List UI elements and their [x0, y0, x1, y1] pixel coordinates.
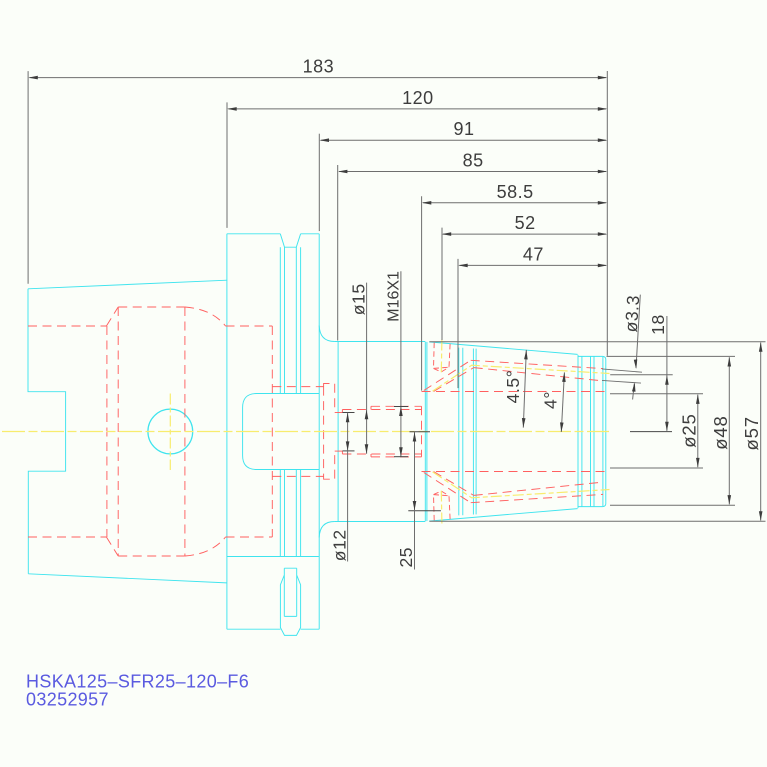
center hole circle — [148, 409, 193, 454]
nose tip groove — [591, 356, 595, 506]
flange bottom edge left — [227, 628, 281, 630]
cone top line — [429, 342, 577, 355]
ext lines dia57 — [430, 342, 766, 522]
radial hole centerline top — [440, 340, 443, 373]
svg-text:183: 183 — [303, 57, 335, 77]
svg-text:4°: 4° — [541, 391, 561, 409]
center hole vertical centerline — [169, 394, 171, 471]
bore 12 step face — [341, 410, 343, 455]
cavity shelf top right — [226, 325, 273, 327]
ext line 18 — [610, 374, 673, 376]
cone ring lines 1 — [459, 348, 463, 516]
nose tip step — [578, 355, 582, 508]
order number text — [26, 690, 109, 710]
ticks dia12 — [342, 413, 354, 451]
coolant channel walls top — [471, 360, 603, 381]
dimension 120 — [227, 88, 607, 228]
dimension 18 — [648, 314, 669, 431]
nose end face — [603, 356, 606, 506]
flange inner edge bottom — [227, 556, 319, 558]
ext lines dia25 — [610, 394, 703, 468]
body bottom edge — [335, 521, 425, 523]
coolant channel walls bottom — [471, 482, 603, 503]
flange top edge right — [301, 233, 320, 235]
cavity wall b — [117, 307, 119, 556]
thread M16 end face — [421, 406, 423, 457]
svg-text:120: 120 — [402, 88, 434, 108]
flange bottom edge right — [301, 628, 320, 630]
coolant channel centerline top — [433, 365, 610, 391]
bore 15 lines — [342, 410, 421, 455]
coolant entry cone bottom — [424, 472, 474, 503]
nose tip top edge — [578, 355, 603, 357]
coolant channel centerline bottom — [433, 472, 610, 498]
retainer ring — [324, 384, 335, 480]
svg-text:ø3.3: ø3.3 — [621, 294, 644, 333]
dimension 4deg — [541, 372, 566, 432]
svg-text:47: 47 — [523, 244, 544, 264]
svg-text:ø15: ø15 — [348, 283, 368, 315]
dimension dia25 — [678, 394, 699, 467]
shank taper top line — [28, 280, 227, 289]
svg-text:HSKA125–SFR25–120–F6: HSKA125–SFR25–120–F6 — [26, 672, 249, 692]
V-groove projection lines upper — [280, 247, 300, 393]
thread M16 major lines — [371, 406, 422, 457]
coolant tube capsule — [243, 394, 320, 470]
dimension M16X1 — [385, 271, 402, 457]
cavity bottom line — [118, 555, 185, 557]
dimension 183 — [28, 57, 607, 284]
nose fillet bottom — [319, 522, 334, 538]
dimension 25 — [396, 432, 416, 570]
cone start step lines — [425, 342, 427, 522]
dimension 91 — [319, 119, 607, 231]
cavity chamfer top — [106, 307, 118, 326]
thread M16 start steps — [370, 406, 372, 457]
cavity shelf bottom right — [226, 536, 273, 538]
nose fillet top — [319, 326, 334, 342]
channel wall extensions — [602, 369, 642, 383]
tool bore top — [422, 391, 606, 393]
svg-text:18: 18 — [648, 314, 668, 335]
shank taper bottom line — [28, 574, 226, 583]
dimension 85 — [338, 151, 608, 341]
ext lines dia48 — [607, 356, 736, 505]
cavity chamfer bottom — [106, 537, 118, 556]
main axis centerline — [2, 431, 609, 433]
dimension dia15 — [348, 283, 368, 454]
cavity arc top — [185, 307, 226, 326]
svg-text:91: 91 — [453, 119, 474, 139]
flange top edge left — [227, 233, 280, 235]
shank left face and drive notch — [28, 289, 66, 574]
orientation notch bottom — [280, 568, 300, 635]
svg-text:ø48: ø48 — [710, 415, 731, 449]
svg-text:4.5°: 4.5° — [503, 370, 523, 404]
tool bore bottom — [422, 471, 606, 473]
dimension dia57 — [741, 342, 762, 520]
dimension 58.5 — [422, 182, 608, 391]
radial hole centerline bottom — [440, 491, 443, 524]
svg-text:58.5: 58.5 — [497, 182, 534, 202]
cone ring lines 2 — [473, 349, 476, 515]
flange right face — [318, 234, 320, 629]
centerline tick 18 — [630, 431, 672, 433]
dimension 52 — [442, 213, 608, 340]
V-groove projection lines lower — [280, 470, 300, 557]
cavity wall c — [184, 307, 186, 556]
svg-text:52: 52 — [515, 213, 536, 233]
radial hole bottom — [434, 491, 451, 520]
cone bottom line — [429, 509, 577, 521]
dimension 4.5deg — [503, 350, 528, 428]
cavity end face — [271, 326, 273, 537]
cavity shelf top — [28, 325, 106, 327]
ticks 25 — [408, 432, 441, 511]
pilot bore top — [272, 386, 323, 388]
radial hole top — [434, 343, 451, 372]
cavity arc bottom — [185, 537, 226, 556]
body top edge — [335, 341, 425, 343]
svg-text:ø12: ø12 — [329, 529, 349, 561]
dimension 47 — [458, 244, 607, 388]
cavity shelf bottom — [28, 536, 106, 538]
cavity top line — [118, 306, 185, 308]
nose tip bottom edge — [578, 506, 603, 508]
svg-text:03252957: 03252957 — [26, 690, 109, 710]
svg-text:ø57: ø57 — [741, 416, 762, 450]
bore 12 lines — [335, 413, 343, 452]
svg-text:M16X1: M16X1 — [385, 271, 402, 322]
svg-text:85: 85 — [463, 151, 484, 171]
dimension right extension line — [606, 71, 608, 356]
svg-text:25: 25 — [396, 547, 416, 568]
pilot bore bottom — [272, 475, 323, 477]
dimension dia3.3 — [621, 294, 644, 399]
flange left face — [226, 234, 228, 629]
coolant entry cone top — [424, 360, 474, 391]
dimension dia48 — [710, 357, 731, 505]
body inner face line — [337, 342, 339, 522]
dimension dia12 — [329, 413, 349, 562]
flange V-groove top — [280, 234, 300, 247]
cavity wall a — [106, 326, 108, 537]
ticks M16 — [394, 407, 408, 457]
part number text — [26, 672, 249, 692]
svg-text:ø25: ø25 — [678, 413, 699, 447]
